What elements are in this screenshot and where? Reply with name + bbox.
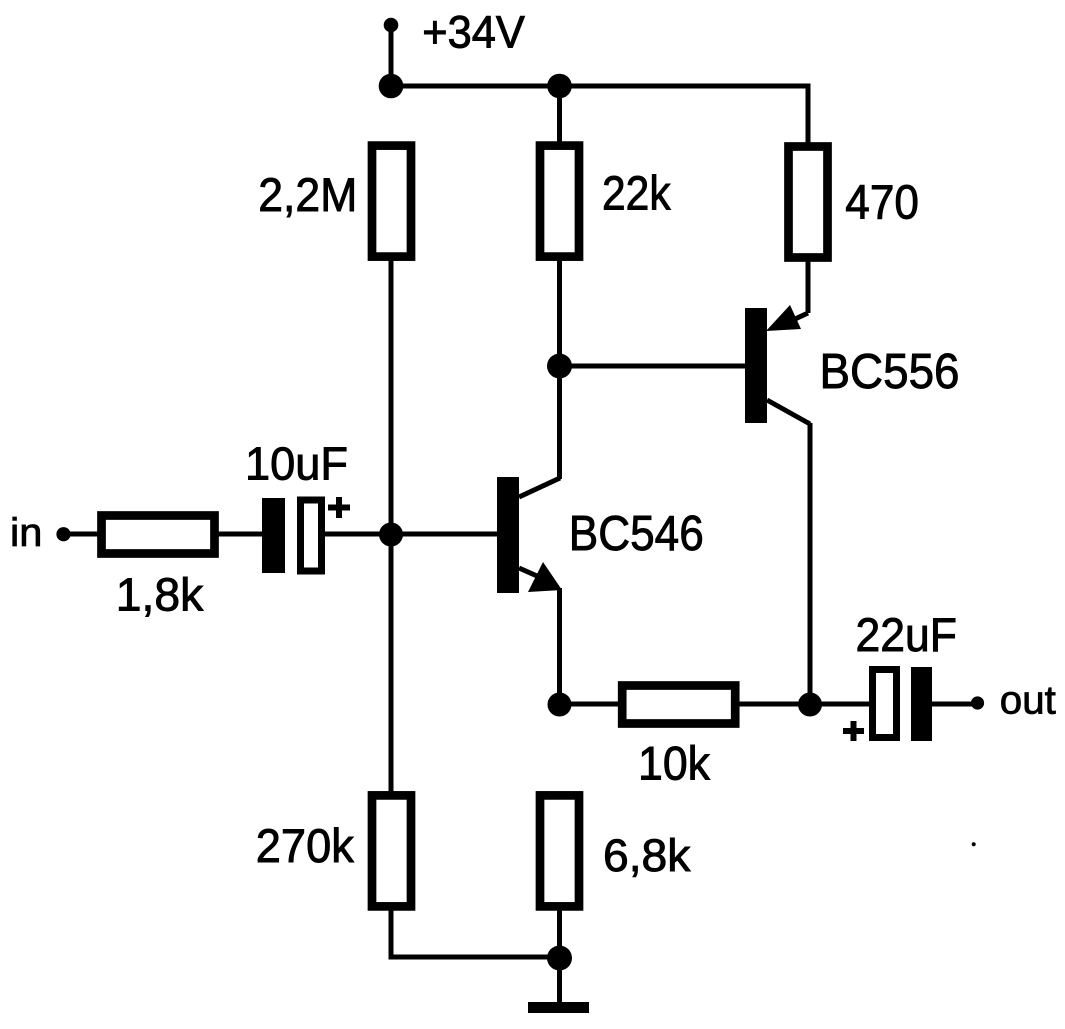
- resistor 22k: [540, 146, 579, 257]
- wire BC546 emitter to node D: [557, 588, 562, 705]
- wire BC556 emitter vertical: [806, 259, 811, 313]
- ground: [528, 1002, 589, 1013]
- wire R 10k to node E: [738, 702, 810, 707]
- transistor Q2 collector diagonal: [767, 400, 810, 424]
- node junction F: [547, 946, 572, 971]
- resistor 10k: [622, 686, 735, 724]
- wire to 470 top: [806, 84, 811, 143]
- wire bottom horizontal: [389, 955, 560, 960]
- svg-text:470: 470: [845, 177, 919, 230]
- svg-text:BC546: BC546: [569, 507, 704, 561]
- wire node C to BC556 base: [560, 364, 746, 369]
- wire in terminal to R 1,8k: [63, 532, 100, 537]
- node out terminal: [971, 696, 984, 709]
- resistor 470: [789, 147, 828, 258]
- resistor 270k: [372, 795, 411, 906]
- capacitor C1 10uF solid plate: [262, 498, 285, 573]
- wire node D to R 10k: [560, 702, 623, 707]
- capacitor C2 22uF hollow plate: [873, 670, 897, 738]
- svg-text:1,8k: 1,8k: [116, 569, 204, 621]
- transistor Q2 emitter diagonal: [780, 313, 808, 326]
- wire 6,8k bottom lead: [557, 910, 562, 957]
- wire 22k bottom to node C: [557, 259, 562, 366]
- transistor Q1 emitter diagonal: [519, 568, 546, 580]
- node in terminal: [56, 527, 70, 541]
- capacitor C2 22uF solid plate: [911, 667, 932, 741]
- capacitor C1 plus sign: [328, 497, 350, 518]
- svg-text:10k: 10k: [638, 737, 710, 790]
- svg-text:270k: 270k: [256, 819, 354, 872]
- wire node F to ground: [557, 957, 562, 1004]
- wire C 22uF to out terminal: [931, 702, 978, 707]
- wire node C down to BC546 collector: [557, 366, 562, 479]
- wire C 10uF to node B1: [324, 532, 391, 537]
- transistor Q2 emitter arrow: [766, 305, 801, 331]
- node junction top mid: [547, 74, 572, 99]
- transistor Q1 BC546 base bar: [497, 477, 519, 593]
- wire BC556 collector vertical: [808, 423, 813, 704]
- transistor Q1 emitter arrow: [528, 562, 562, 592]
- svg-text:22uF: 22uF: [856, 608, 957, 661]
- transistor Q2 BC556 base bar: [745, 308, 767, 423]
- transistor Q1 collector diagonal: [519, 478, 560, 497]
- node junction top left: [379, 74, 404, 99]
- wire node B1 to BC546 base: [391, 532, 498, 537]
- node junction base B1: [379, 523, 403, 547]
- node junction D: [548, 693, 572, 717]
- svg-text:out: out: [1000, 678, 1056, 722]
- wire 22k top lead: [557, 86, 562, 143]
- capacitor C1 10uF hollow plate: [301, 500, 322, 571]
- svg-text:2,2M: 2,2M: [258, 168, 357, 221]
- svg-text:in: in: [10, 511, 42, 555]
- resistor 2,2M: [372, 146, 411, 257]
- svg-text:+34V: +34V: [422, 6, 525, 57]
- svg-text:6,8k: 6,8k: [603, 830, 691, 881]
- wire top rail: [391, 84, 811, 89]
- wire left vertical (2,2M bottom to 270k top): [389, 259, 394, 793]
- wire node E to C 22uF: [810, 702, 870, 707]
- capacitor C2 plus sign: [843, 721, 864, 741]
- node junction E: [798, 693, 822, 717]
- resistor 6,8k: [540, 795, 579, 906]
- wire 270k bottom lead: [389, 910, 394, 957]
- node junction C: [547, 354, 572, 379]
- resistor 1,8k: [102, 516, 215, 554]
- svg-text:10uF: 10uF: [245, 438, 348, 490]
- wire supply feed: [389, 25, 394, 88]
- svg-text:BC556: BC556: [820, 345, 960, 399]
- node supply terminal: [384, 18, 399, 33]
- wire R 1,8k to C 10uF: [217, 532, 264, 537]
- noise speck: [972, 842, 976, 846]
- svg-text:22k: 22k: [602, 167, 671, 220]
